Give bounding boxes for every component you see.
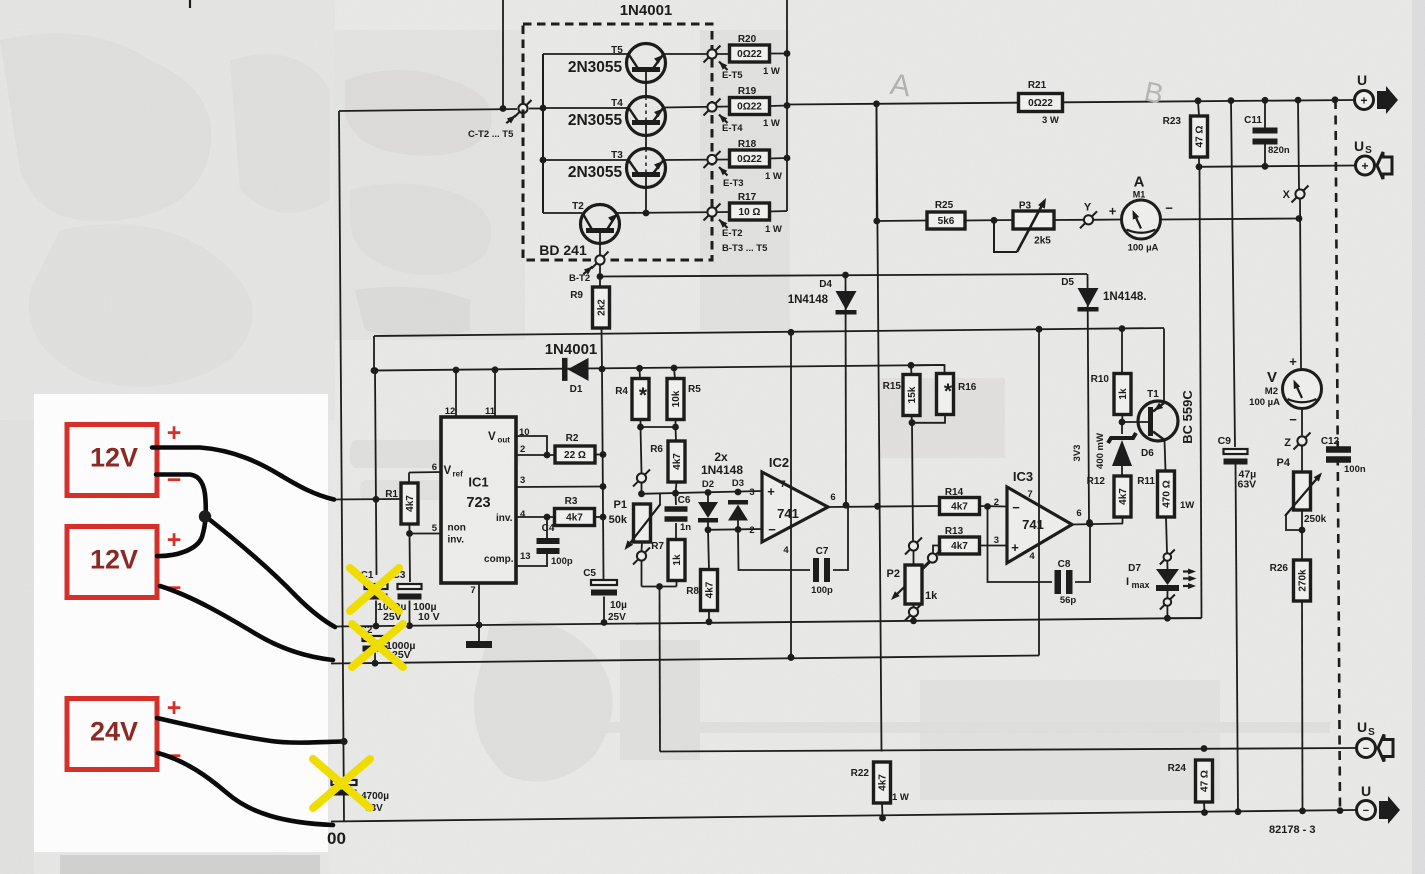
wire P1 point to dot [641,483,643,494]
wire C9 vertical bottom [1236,465,1239,812]
node bus R20 [784,50,791,57]
wire D6 top lead [1121,422,1123,434]
capacitor C6 [665,506,688,522]
arrow to E-T3 [717,165,728,176]
wire R1 bottom lead [409,524,411,534]
arrow to B-T2 [583,264,594,274]
node D3 top [735,489,742,496]
node bottom R26 [1299,808,1306,815]
capacitor C4 [537,538,560,554]
wire rail2 [331,656,1039,664]
node ref R5 [671,365,678,372]
node 24V junction [340,738,347,745]
resistor R23 [1191,116,1208,157]
wire V+ rail left corner [373,336,375,371]
wire R5 top lead [674,368,675,379]
node vout line R2 [600,451,607,458]
wire P4 wiper tie [1286,514,1302,530]
node D2 top [705,489,712,496]
wire R1 top lead [408,473,410,484]
node vout pin3 [600,483,607,490]
ground symbol [466,641,492,648]
wire T4 emitter lead [663,107,730,108]
annotation wire junction to rail1 [205,516,335,627]
wire Us+ sense line [1199,166,1355,167]
node bottom dashed [1337,807,1344,814]
resistor R25 [927,212,965,229]
node P2 top point [905,538,922,555]
resistor R26 [1294,560,1311,601]
node ref line start [371,367,378,374]
wire 12V+ entry line [330,498,400,501]
resistor R18 [730,150,770,167]
node R5 bottom [672,424,679,431]
annotation source box 12V lower [67,527,157,598]
resistor R2 [555,446,595,463]
wire B-T2 to drive line [599,265,601,289]
node Z point [1294,433,1311,450]
arrow to E-T5 [717,59,728,70]
wire R16 bottom loop [912,415,945,423]
wire T3 emitter lead [663,159,730,162]
wire P1-R7 bottom join [642,586,677,588]
arrow P2 wiper [889,562,930,602]
annotation yellow X over C10 [313,759,370,808]
resistor R13 [940,537,980,554]
wire reference line [374,365,944,371]
wire C6 top lead [675,493,678,505]
node rail1 gnd [476,622,483,629]
node R4 bottom [637,424,644,431]
wire IC2 pin7 [790,332,792,657]
diode D5 [1078,288,1099,312]
wire P2 to rail1 [913,617,915,621]
wire C6 bottom lead [675,523,677,540]
node rail R23 [1195,97,1202,104]
arrows D7 light [1183,568,1197,589]
node T1 base node [1119,419,1126,426]
op-amp IC3 741 [1007,469,1072,563]
node rail C9 line [1228,97,1235,104]
wire sense vertical right [1200,167,1202,618]
node rail X line [1295,97,1302,104]
wire P1 bottom [641,542,644,551]
resistor R15 [903,375,920,416]
node rail2 IC2 [788,654,795,661]
wire D4 lead [845,275,848,505]
transistor T3 2N3055 [611,149,665,188]
node ref R15 [908,362,915,369]
wire base chain T5-T4 [645,72,647,97]
node P1 bottom point [633,548,650,565]
wire base lead T1 [1122,421,1148,423]
annotation yellow X over C2 [352,624,403,667]
wire R4 top lead [639,368,642,379]
node collector feed [500,105,507,112]
node C6 R6 junction [672,490,679,497]
wire collector feed [339,109,517,111]
wire gnd stub [478,625,480,641]
node D2 minus line [705,526,712,533]
wire P3 to Y [1054,219,1084,221]
resistor R11 [1158,471,1175,517]
wire R13 right [980,545,1008,547]
wire R25 lead left [877,220,927,223]
wire P1 wiper tie [659,494,661,504]
capacitor C9 47u [1224,449,1248,465]
wire pin10 wrap [516,436,547,455]
wire pin7 lead [478,583,480,625]
node bottom C9 [1235,808,1242,815]
node V+ rail IC2 [788,329,795,336]
terminal U+ [1355,72,1399,114]
wire R11 to D7 point [1166,517,1167,553]
wire C7 feedback right [833,507,848,570]
arrow P3 wiper [1017,196,1049,252]
wire R4-R5 join [641,426,676,428]
annotation source box 12V upper [67,425,157,496]
wire P3 wiper tie [994,220,1017,252]
wire Us- line [660,748,1355,752]
wire bottom rail [331,810,1355,822]
diode D4 [836,291,857,315]
node ref line x376 [372,367,379,374]
wire R14 right [980,505,1008,508]
wire C1 bottom [375,601,377,627]
node V+ rail IC3 [1036,326,1043,333]
arrow to C-T2 point [506,113,517,123]
wire R7 bottom [676,581,678,587]
wire sense vertical [659,587,662,752]
wire C11 lead top [1264,100,1266,128]
wire R1 to C3 [409,534,412,583]
wire X line lower [1300,199,1301,370]
wire top feed vertical [502,0,504,109]
node P2 bottom point [905,604,922,621]
wire D2 top lead [707,493,709,503]
wire R13 left wrap [933,546,940,554]
wire P4 bottom [1301,510,1303,560]
node E-T5 point [704,46,721,63]
resistor R24 [1196,760,1213,802]
node E-T4 point [704,99,721,116]
wire R5 to R6 [675,427,678,441]
resistor R22 [874,762,891,803]
wire IC3 pin7 [1038,329,1040,655]
node D7 bottom point [1160,595,1175,610]
dashed box transistor group [523,24,712,260]
node entry junction [373,496,380,503]
node R25 line [873,218,880,225]
capacitor C1 1000u [365,584,388,600]
resistor R4 [632,379,649,420]
wire R10 bottom [1121,415,1124,423]
wire plus input line [642,491,763,494]
wire R23 bottom [1198,157,1200,167]
wire base chain T4-T3 [645,125,647,149]
resistor R20 [730,45,770,62]
wire pin2 lead [516,454,555,456]
wire rail1 [333,618,1202,627]
potentiometer P1 box [634,504,651,542]
wire R25 to P3 [965,219,1013,222]
node IC3 out C8 [1087,521,1094,528]
node drive line junction [597,273,604,280]
wire R22 bottom [881,803,884,818]
node rail1 C3 [406,622,413,629]
op-amp IC2 741 [749,455,828,556]
wire pin13 wrap [516,553,547,567]
wire T3 collector lead [543,159,628,161]
node R1 pin5 [406,530,413,537]
node rail x877 [873,100,880,107]
resistor R12 [1114,476,1131,517]
node bus R19 [784,102,791,109]
wire dashed separator [1336,100,1341,810]
node D1 line R9 [599,366,606,373]
capacitor C5 10u [591,580,617,596]
resistor R14 [940,498,980,515]
wire D2 to R8 [708,530,709,570]
wire P2 bottom lead [913,604,915,607]
wire R26 bottom [1301,601,1304,811]
wire base chain T3 to T2 emitter line [645,177,647,213]
node M1 line X junction [1296,215,1303,222]
wire V+ rail corner to T1 [1163,328,1165,403]
node P2 wiper point [924,550,941,567]
wire C2 bottom [374,653,376,664]
wire x877 vertical [877,104,882,752]
wire pin5 lead [410,533,442,535]
node E-T2 point [704,204,721,221]
wire D3 bottom lead [737,521,739,530]
wire R6 bottom [676,482,677,493]
wire main output rail [787,100,1354,105]
node C-T2...T5 point [515,100,532,117]
transistor T2 BD241 [572,201,619,244]
wire T2 collector lead [543,212,582,214]
diode D7 LED [1156,569,1179,591]
wire pin 11 lead [494,370,496,417]
wire IC3 output [1072,524,1123,525]
wire X line upper [1298,100,1299,189]
node rail1 R8 [706,618,713,625]
node pin2 node IC3 [984,503,991,510]
diode D6 zener [1108,433,1136,466]
wire left bus vertical [339,111,344,821]
capacitor C3 100u [398,584,422,600]
resistor R9 [593,287,610,328]
terminal Us- [1357,719,1394,762]
wire D7 top lead [1166,561,1168,569]
arrow to E-T4 [717,112,728,123]
node vout R3 [600,514,607,521]
wire C3 bottom [409,601,411,626]
resistor R21 [1019,94,1063,112]
node sense drop [656,583,663,590]
potentiometer P3 [1013,211,1054,229]
node Y point [1080,211,1097,228]
transistor T4 2N3055 [611,97,665,136]
potentiometer P2 box [905,565,922,604]
capacitor C10 4700u [332,780,357,796]
annotation wire 12V series link [156,475,206,557]
wire C4 top lead [546,517,548,541]
annotation wire 24V+ to bus [157,718,341,743]
node drive D4 [842,272,849,279]
wire minus input line [708,528,762,531]
node rail dashed [1332,96,1339,103]
node R15 R16 bottom [909,419,916,426]
wire dashed through T4 [645,97,647,121]
node P1 top [638,490,645,497]
annotation source box 24V [67,699,157,770]
wire R25 feed [876,104,878,221]
node bus R18 [784,155,791,162]
wire P1 point down [641,561,643,587]
meter M1 ammeter [1109,174,1174,254]
wire Y to M1 [1093,219,1121,221]
op-amp/regulator IC1 723 box [432,406,531,596]
meter M2 voltmeter [1283,370,1322,409]
node D3 minus line [735,526,742,533]
node out x877 [874,503,881,510]
wire C1 vertical [375,371,377,575]
resistor R16 [937,374,954,415]
resistor R19 [730,98,770,115]
wire pin3 lead [516,486,603,489]
node rail2 IC2pin4 [788,654,795,661]
wire IC2 output [828,506,940,507]
node base chain junction [643,210,650,217]
wire R15 top lead [910,365,913,375]
wire R17 to bus [770,210,788,213]
resistor R10 [1114,374,1131,415]
node V+ rail R10 [1119,325,1126,332]
wire D7 loop [1167,606,1201,618]
node P4 tie [1299,527,1306,534]
wire R20 to bus [770,53,788,55]
capacitor C12 [1326,446,1351,463]
node pin2 wrap [544,452,551,459]
node Us line R23 [1196,163,1203,170]
wire R23 top [1198,101,1199,116]
terminal U- [1357,783,1401,824]
wire drive line B-T2 to D5 [600,274,1087,277]
wire T5 emitter lead [663,53,730,55]
wire pin4 lead [516,516,554,518]
node P3 left [991,217,998,224]
wire R19 to bus [770,105,788,108]
resistor R3 [555,509,595,526]
capacitor C2 1000u [363,636,388,652]
node pin4 C4 tap [544,514,551,521]
wire vout vertical [602,369,604,579]
arrow P1 wiper [622,504,661,552]
node P1 top point [633,470,650,487]
node bottom R24 [1201,809,1208,816]
wire C8 feedback right [1075,524,1090,582]
wire R16 top loop [911,365,945,374]
terminal Us+ [1354,138,1392,179]
node ref R4 [636,365,643,372]
resistor R1 [401,483,418,524]
node D7 top point [1160,550,1175,565]
wire V+ rail [374,328,1164,336]
wire D2 bottom lead [707,523,709,531]
diode D1 [562,358,589,381]
potentiometer P4 box [1294,472,1311,510]
wire R4 to P1 point [641,427,642,473]
wire R18 to bus [770,157,788,160]
wire D5 lead [1088,274,1090,523]
wire T4 collector lead [543,107,628,109]
resistor R17 [730,203,770,220]
node rail2 C2 [372,660,379,667]
wire D7 bottom lead [1166,591,1168,599]
wire C bus to T bus [529,108,543,110]
wire C7 feedback left [738,530,810,571]
wire M2 bottom [1301,409,1303,437]
resistor R7 [668,540,685,581]
wire Z to P4 [1301,446,1303,472]
diode D3 [728,500,748,521]
wire top-left stub [189,0,191,8]
transistor T5 2N3055 [611,44,665,83]
node Us- R24 [1201,745,1208,752]
node out D4 [843,502,850,509]
wire T2 emitter lead [617,212,730,213]
node E-T3 point [704,151,721,168]
wire pin 12 lead [455,370,457,417]
wire R9 bottom [601,328,604,369]
wire T2 base down [599,233,601,255]
resistor R6 [668,441,685,482]
node T4 collector [540,105,547,112]
node X point [1292,186,1309,203]
capacitor C8 [1055,570,1073,594]
annotation wire 12V+ to regulator [152,448,334,500]
node rail1 D7 [1164,615,1171,622]
wire pin6 lead [409,471,441,474]
wire C5 bottom [603,597,605,623]
arrow to E-T2 [717,217,728,228]
wire R15 bottom [911,416,914,424]
wire T5 collector lead [543,53,628,55]
annotation wire 12V- to rail2 [160,586,333,660]
wire dashed through T3 [645,149,647,173]
node pin12 junction [453,367,460,374]
resistor R5 [667,379,684,420]
wire R3 right [595,516,604,518]
wire T collector bus [542,54,544,213]
node Us line C11 [1262,163,1269,170]
wire M1 to X line [1161,219,1300,220]
wire R10 top lead [1121,329,1123,374]
node rail1 C1 [373,623,380,630]
wire R24 bottom [1203,802,1206,813]
wire R8 bottom [708,611,710,622]
arrow P4 wiper [1285,470,1325,516]
wire R12 bottom [1122,517,1124,524]
capacitor C11 [1253,128,1278,145]
annotation white panel [34,394,328,852]
wire C8 feedback left [988,508,1053,582]
wire R4 bottom [640,420,642,428]
resistor R8 [701,570,718,611]
node bottom R22 [879,815,886,822]
node rail C11 [1262,97,1269,104]
